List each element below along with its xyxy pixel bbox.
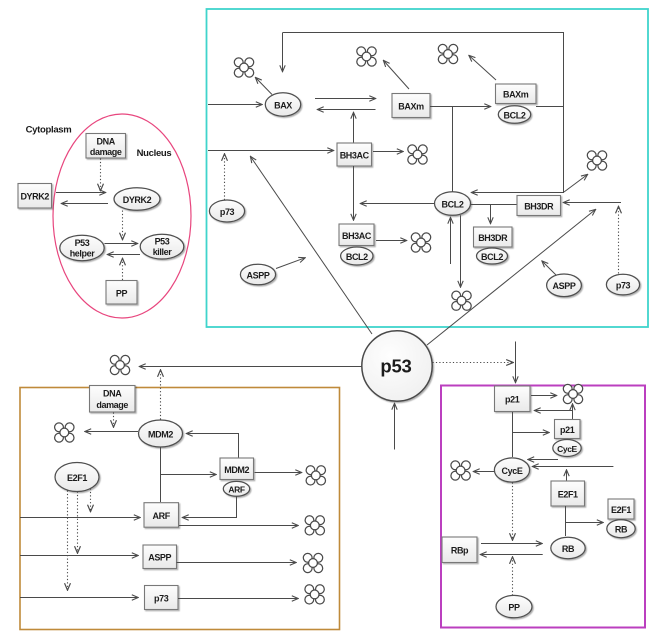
svg-text:CycE: CycE xyxy=(502,466,523,476)
wire RBp to RB arrow right xyxy=(481,543,542,545)
svg-text:p21: p21 xyxy=(505,395,520,405)
wire long left line into BH3AC xyxy=(208,150,334,152)
node MDM2-ARF complex rect xyxy=(220,458,254,480)
node p21 rect xyxy=(495,386,531,412)
oligomer cluster right of MDM2 complex xyxy=(306,466,325,485)
svg-text:ARF: ARF xyxy=(153,511,171,521)
svg-text:BH3AC: BH3AC xyxy=(340,151,370,161)
oligomer cluster right of BH3AC complex xyxy=(411,233,430,252)
node BCL2 ellipse of BH3DR complex xyxy=(477,248,508,264)
svg-text:PP: PP xyxy=(508,602,520,612)
node BH3AC rect xyxy=(337,143,372,166)
wire top feedback line xyxy=(283,33,564,193)
wire DYRK2 import arrow right xyxy=(56,192,106,194)
svg-text:PP: PP xyxy=(116,289,128,299)
wire p21 to cluster arrow xyxy=(531,395,557,397)
wire MDM2 complex to cluster arrow xyxy=(255,472,302,474)
wire helper to killer arrow xyxy=(105,243,138,245)
wire BCL2 inhibit arrow left xyxy=(361,203,435,205)
wire right line into BH3DR arrow xyxy=(564,202,622,204)
wire MDM2 to cluster arrow left xyxy=(85,431,138,433)
wire arrow up into p53 bottom xyxy=(394,404,396,450)
oligomer cluster ASPP row xyxy=(303,553,322,572)
svg-text:BH3DR: BH3DR xyxy=(524,201,554,211)
wire BAXm line down to BCL2 xyxy=(452,107,454,192)
svg-text:DYRK2: DYRK2 xyxy=(123,195,152,205)
wire p21 down to CycE xyxy=(512,412,514,457)
wire BCL2 down to cluster arrow xyxy=(460,215,462,287)
svg-text:CycE: CycE xyxy=(557,444,577,454)
wire p53 NW diagonal xyxy=(251,157,373,335)
svg-text:BCL2: BCL2 xyxy=(442,199,464,209)
wire ARF to cluster arrow xyxy=(179,525,298,527)
orange compartment box xyxy=(20,388,340,630)
node P53 killer ellipse xyxy=(140,234,184,259)
wire p53 NE diagonal xyxy=(427,210,596,346)
wire PP dotted arrow up xyxy=(512,557,514,596)
oligomer cluster above BAXm xyxy=(357,47,376,66)
svg-text:killer: killer xyxy=(153,247,173,257)
wire BH3AC up arrow xyxy=(353,113,355,143)
svg-text:p73: p73 xyxy=(616,280,631,290)
svg-text:ASPP: ASPP xyxy=(553,281,576,291)
node E2F1 ellipse xyxy=(55,463,99,492)
node RB ellipse xyxy=(551,537,585,558)
wire row line into ASPP xyxy=(20,555,138,557)
node BAXm rect xyxy=(392,94,430,118)
svg-text:MDM2: MDM2 xyxy=(224,465,249,475)
node E2F1 rect magenta xyxy=(551,481,585,506)
oligomer cluster right top xyxy=(587,151,606,170)
wire ARF ellipse wire into ARF rect xyxy=(183,496,237,517)
node p53 central circle xyxy=(362,331,432,401)
svg-text:RB: RB xyxy=(615,525,628,535)
svg-text:P53: P53 xyxy=(155,237,170,247)
oligomer cluster right of p21 xyxy=(563,384,582,403)
wire MDM2 down to ARF xyxy=(160,447,162,502)
node PP (nucleus) xyxy=(106,281,137,305)
wire BH3AC to cluster arrow xyxy=(373,151,403,153)
svg-text:DNA: DNA xyxy=(97,137,116,147)
svg-text:ASPP: ASPP xyxy=(247,270,270,280)
wire row line into p73 xyxy=(20,597,138,599)
svg-text:DNA: DNA xyxy=(103,389,122,399)
node p73 right ellipse xyxy=(606,274,639,295)
oligomer cluster top right xyxy=(438,44,457,63)
wire p53 degradation arrow left to cluster xyxy=(140,366,362,368)
wire MDM2 complex top to MDM2 ellipse arrow xyxy=(187,434,239,459)
node ARF rect xyxy=(144,503,179,528)
wire top line left drop arrow xyxy=(282,33,284,72)
svg-text:p21: p21 xyxy=(560,425,575,435)
wire complex to CycE arrow left xyxy=(528,459,558,461)
wire vertical down to p21 xyxy=(515,342,517,383)
wire RB to RBp arrow left xyxy=(481,554,543,556)
node ASPP right ellipse xyxy=(547,274,582,297)
wire DYRK2 to P53 conversion dotted arrow xyxy=(122,211,124,240)
oligomer cluster p73 row xyxy=(305,585,324,604)
svg-text:BAX: BAX xyxy=(274,100,292,110)
svg-text:RB: RB xyxy=(562,544,575,554)
wire CycE to cluster arrow left xyxy=(474,471,495,473)
wire E2F1 up arrow to line xyxy=(566,470,568,481)
svg-text:RBp: RBp xyxy=(451,546,469,556)
svg-text:Cytoplasm: Cytoplasm xyxy=(26,125,72,136)
wire DNA damage dotted arrow down xyxy=(113,413,115,428)
svg-text:p73: p73 xyxy=(154,594,169,604)
oligomer cluster below BCL2 xyxy=(452,291,471,310)
wire MDM2 dotted arrow up at p53 line xyxy=(160,370,162,420)
wire branch to MDM2-ARF complex arrow xyxy=(160,474,216,476)
node BCL2 ellipse of BH3AC complex xyxy=(341,247,373,265)
svg-text:BCL2: BCL2 xyxy=(481,252,503,262)
oligomer cluster ARF row xyxy=(305,516,324,535)
svg-text:p53: p53 xyxy=(380,356,411,377)
oligomer cluster right of BH3AC xyxy=(408,145,427,164)
wire branch into p21-CycE complex arrow xyxy=(512,432,549,434)
svg-text:BCL2: BCL2 xyxy=(346,252,368,262)
svg-text:p73: p73 xyxy=(220,207,235,217)
oligomer cluster left of MDM2 xyxy=(55,423,74,442)
node DYRK2 nucleus ellipse xyxy=(114,188,160,211)
svg-text:BCL2: BCL2 xyxy=(504,110,526,120)
magenta compartment box xyxy=(441,386,645,628)
node p73 rect xyxy=(145,586,179,610)
wire p73 to cluster arrow xyxy=(178,598,298,600)
svg-text:BH3AC: BH3AC xyxy=(342,231,372,241)
wire PP to killer-helper dotted arrow up xyxy=(122,259,124,281)
wire BAXm to BAX arrow left xyxy=(318,109,376,111)
wire p73 dotted arrow up xyxy=(224,154,226,200)
svg-text:E2F1: E2F1 xyxy=(558,490,578,500)
wire BAXm-BCL2 complex to oligomer diagonal arrow xyxy=(469,56,496,81)
wire DNA damage to DYRK2 dotted arrow xyxy=(100,159,102,191)
node CycE ellipse xyxy=(494,458,529,482)
node BAX ellipse xyxy=(265,93,300,116)
svg-text:ARF: ARF xyxy=(228,484,244,494)
wire ASPP to cluster arrow xyxy=(177,562,297,564)
node BCL2 ellipse of BAXm complex xyxy=(498,106,530,123)
wire branch to E2F1-RB complex arrow xyxy=(565,522,603,524)
node BAXm-BCL2 complex rect xyxy=(496,84,537,104)
wire complex to p21 arrow left xyxy=(535,410,574,412)
wire left edge to BAX arrow xyxy=(208,104,262,106)
svg-text:MDM2: MDM2 xyxy=(148,429,173,439)
wire killer to helper arrow xyxy=(108,254,141,256)
wire p73 right dotted arrow up xyxy=(618,207,620,274)
wire DYRK2 export arrow left xyxy=(62,203,109,205)
oligomer cluster left of CycE xyxy=(451,461,470,480)
wire E2F1 dotted arrow mid xyxy=(77,492,79,554)
wire E2F1 dotted arrow long xyxy=(67,491,69,591)
oligomer cluster near BAX xyxy=(234,58,253,77)
wire BAX to oligomer cluster arrow xyxy=(256,78,273,95)
wire E2F1 dotted arrow short xyxy=(90,489,92,512)
svg-text:damage: damage xyxy=(96,400,128,410)
wire p53 dotted arrow right xyxy=(433,362,514,364)
wire ASPP right arrow to diagonal xyxy=(542,261,556,275)
svg-text:E2F1: E2F1 xyxy=(67,473,87,483)
node E2F1-RB complex rect xyxy=(608,499,634,519)
node RBp rect xyxy=(442,537,477,563)
node ASPP left ellipse xyxy=(240,264,275,285)
node ASPP rect xyxy=(143,545,177,569)
wire BAXm to oligomer diagonal arrow xyxy=(384,61,410,90)
mitochondria compartment cyan box xyxy=(207,9,649,327)
svg-text:BH3DR: BH3DR xyxy=(478,233,508,243)
node DYRK2 cytoplasm rect xyxy=(18,184,52,209)
node BCL2 central ellipse xyxy=(435,192,471,216)
node MDM2 ellipse xyxy=(139,420,183,447)
node CycE ellipse of p21 complex xyxy=(553,440,581,457)
wire complex right to feedback line xyxy=(536,106,563,108)
node BH3DR-BCL2 complex rect xyxy=(474,227,513,247)
node DNA damage (orange) xyxy=(90,386,136,413)
node RB ellipse of E2F1 complex xyxy=(607,520,635,538)
svg-text:DYRK2: DYRK2 xyxy=(20,192,49,202)
svg-text:E2F1: E2F1 xyxy=(611,505,631,515)
svg-text:BAXm: BAXm xyxy=(398,101,424,111)
svg-text:ASPP: ASPP xyxy=(148,553,171,563)
wire row line into ARF xyxy=(20,517,140,519)
wire BCL2 to BH3DR line xyxy=(471,204,517,206)
wire ASPP arrow to diagonal xyxy=(276,258,305,269)
wire long line into CycE xyxy=(533,466,614,468)
node BH3DR rect xyxy=(517,196,561,216)
nucleus pink ellipse xyxy=(53,114,191,318)
node PP ellipse magenta xyxy=(496,595,532,617)
wire BAX to BAXm arrow right xyxy=(315,98,376,100)
node P53 helper ellipse xyxy=(60,235,104,260)
wire BAXm to BAXm-BCL2 complex arrow xyxy=(430,106,491,108)
node BH3AC-BCL2 complex rect xyxy=(339,224,374,246)
svg-text:helper: helper xyxy=(70,249,96,259)
wire BH3DR to cluster diagonal arrow xyxy=(564,175,588,193)
wire p21 complex up arrow xyxy=(572,404,574,420)
svg-text:damage: damage xyxy=(90,147,122,157)
wire branch down to BH3DR-BCL2 complex xyxy=(490,205,492,224)
wire BH3AC complex to cluster arrow xyxy=(376,240,407,242)
node DNA damage (nucleus) xyxy=(86,134,126,159)
wire BH3AC down to BH3AC-BCL2 complex xyxy=(353,166,355,220)
oligomer cluster left of p53 xyxy=(110,355,129,374)
node p73 left ellipse xyxy=(209,200,244,222)
wire up arrow into BCL2 bottom xyxy=(450,218,452,265)
wire E2F1 down to RB xyxy=(565,506,567,536)
svg-text:P53: P53 xyxy=(75,238,90,248)
svg-text:Nucleus: Nucleus xyxy=(137,148,172,159)
wire CycE dotted down arrow xyxy=(512,483,514,541)
svg-text:BAXm: BAXm xyxy=(503,90,529,100)
node ARF ellipse of MDM2 complex xyxy=(223,481,249,496)
node p21-CycE complex rect xyxy=(555,420,581,439)
